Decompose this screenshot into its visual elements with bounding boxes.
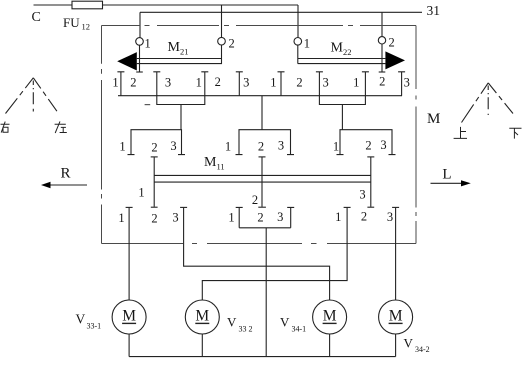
- left direction indicator center line: [32, 81, 34, 112]
- svg-text:21: 21: [180, 47, 189, 57]
- svg-text:2: 2: [215, 75, 221, 89]
- svg-text:2: 2: [389, 35, 395, 49]
- svg-text:M: M: [195, 307, 209, 324]
- contact post 2 row1: [153, 72, 160, 96]
- contact post 1 row1: [117, 72, 124, 96]
- M21 direction arrow (left): [117, 52, 137, 70]
- M21 moving arm: [139, 45, 141, 71]
- svg-text:1: 1: [225, 140, 231, 154]
- wire center drop to middle selector: [261, 96, 263, 130]
- M22 slider bar upper: [298, 58, 386, 60]
- motor V33-1: [112, 300, 146, 334]
- label down-char: [509, 128, 521, 138]
- bracket under M21: [157, 96, 205, 105]
- svg-text:3: 3: [322, 76, 328, 90]
- bottom middle contact 1: [236, 207, 243, 227]
- svg-text:V: V: [280, 315, 290, 330]
- M22 moving arm: [381, 44, 383, 72]
- M11 left arm T-bottom: [151, 206, 158, 208]
- svg-text:V: V: [404, 336, 414, 351]
- wire contact 3 to motor V34-1: [184, 208, 330, 300]
- svg-text:C: C: [32, 10, 41, 25]
- wire V33-2 to bus: [201, 334, 203, 357]
- selector bar middle group: [239, 130, 291, 155]
- svg-text:3: 3: [359, 188, 365, 202]
- controller box dash-dot border top: [102, 25, 417, 27]
- M22 direction arrow (right): [385, 51, 405, 69]
- svg-text:V: V: [227, 315, 237, 330]
- label left-char: [55, 121, 67, 133]
- wire V33-1 to bus: [128, 334, 130, 357]
- controller box dash-dot border left: [101, 26, 103, 244]
- M11 right arm T-bottom: [367, 206, 374, 208]
- selector right T-tips: [337, 154, 396, 156]
- contact post 5 row1: [278, 72, 285, 96]
- svg-text:2: 2: [258, 140, 264, 154]
- svg-text:1: 1: [228, 211, 234, 225]
- bottom middle bracket: [239, 227, 291, 229]
- selector left common T-top: [151, 156, 158, 158]
- svg-text:3: 3: [277, 210, 283, 224]
- svg-text:3: 3: [278, 139, 284, 153]
- svg-text:3: 3: [404, 76, 410, 90]
- svg-text:1: 1: [196, 76, 202, 90]
- svg-text:22: 22: [343, 47, 352, 57]
- svg-text:1: 1: [333, 140, 339, 154]
- svg-text:1: 1: [138, 186, 144, 200]
- M22 slider bar lower: [298, 63, 386, 65]
- M22 arm T-tip: [379, 71, 386, 73]
- svg-text:M: M: [427, 111, 440, 127]
- M22 pin1 stem: [297, 45, 299, 64]
- wire M21 pin1 to 31 bus: [139, 12, 141, 37]
- svg-text:1: 1: [112, 76, 118, 90]
- bottom middle contact 3: [287, 207, 294, 227]
- svg-text:M: M: [122, 307, 136, 324]
- svg-text:31: 31: [427, 3, 441, 18]
- contact post 3 row1: [201, 72, 208, 96]
- selector right common T-top: [367, 156, 374, 158]
- M21 slider bar lower: [137, 63, 222, 65]
- switch M21 pin 1 circle: [136, 38, 144, 46]
- controller box dash-dot border right: [415, 26, 417, 244]
- svg-text:2: 2: [379, 75, 385, 89]
- wire M22 pin1 to C bus: [297, 5, 299, 38]
- controller box dash-dot border bottom: [102, 243, 417, 245]
- minus mark: [145, 104, 151, 106]
- svg-text:3: 3: [380, 138, 386, 152]
- svg-text:L: L: [442, 167, 451, 183]
- M21 pin2 stem: [221, 45, 223, 64]
- contact post 7 row1: [362, 72, 369, 96]
- svg-text:R: R: [60, 166, 70, 182]
- wire M22 pin2 to 31 bus: [381, 12, 383, 36]
- M11 slider bar lower: [154, 181, 371, 183]
- bottom contact 1 T-top left group: [126, 206, 133, 208]
- bottom bus: [129, 356, 396, 358]
- svg-text:3: 3: [170, 139, 176, 153]
- selector middle common T-top: [259, 156, 266, 158]
- wire contact 1 to motor V33-1: [128, 208, 130, 300]
- wire M21 pin2 to C bus: [221, 5, 223, 38]
- svg-text:FU: FU: [63, 15, 80, 30]
- contact post 8 row1: [398, 72, 405, 96]
- svg-text:M: M: [323, 307, 337, 324]
- switch M21 pin 2 circle: [218, 37, 226, 45]
- switch M22 pin 1 circle: [294, 38, 302, 46]
- svg-text:3: 3: [172, 211, 178, 225]
- svg-text:2: 2: [252, 193, 258, 207]
- svg-text:1: 1: [118, 211, 124, 225]
- contact post 4 row1: [236, 72, 243, 96]
- left direction indicator legs: [6, 78, 34, 114]
- svg-text:2: 2: [130, 76, 136, 90]
- svg-text:2: 2: [151, 141, 157, 155]
- motor V34-1: [313, 300, 347, 334]
- label up-char: [454, 127, 467, 138]
- svg-text:33 2: 33 2: [239, 325, 253, 334]
- bracket under M22: [319, 96, 365, 105]
- svg-text:2: 2: [151, 212, 157, 226]
- motor V34-2: [379, 300, 413, 334]
- bracket stem M21: [180, 105, 182, 130]
- M11 left arm terminal 1: [153, 157, 155, 207]
- wire contact 3 to motor V34-2: [395, 208, 397, 300]
- svg-text:1: 1: [119, 140, 125, 154]
- svg-text:M: M: [331, 41, 344, 56]
- label right-char: [1, 122, 10, 133]
- svg-text:3: 3: [387, 210, 393, 224]
- selector bar left group: [131, 130, 182, 155]
- svg-text:3: 3: [243, 76, 249, 90]
- svg-text:1: 1: [353, 76, 359, 90]
- M11 right arm terminal 3: [370, 157, 372, 207]
- M11 middle arm T-bottom: [258, 206, 266, 208]
- bracket stem M22: [341, 105, 343, 130]
- bottom right contact 3 T-top: [392, 206, 399, 208]
- svg-text:33-1: 33-1: [87, 322, 102, 331]
- svg-text:34-2: 34-2: [415, 345, 430, 354]
- svg-text:3: 3: [165, 76, 171, 90]
- svg-text:1: 1: [270, 76, 276, 90]
- wire V34-1 to bus: [329, 334, 331, 357]
- svg-text:2: 2: [365, 139, 371, 153]
- common line row1: [118, 95, 402, 97]
- right direction indicator center line: [487, 86, 489, 116]
- wire C bus: [34, 4, 299, 6]
- svg-text:2: 2: [361, 210, 367, 224]
- M21 slider bar upper: [137, 58, 222, 60]
- svg-text:2: 2: [257, 211, 263, 225]
- fuse FU12: [72, 1, 103, 9]
- M21 arm T-tip: [136, 71, 143, 73]
- wire contact 1 to motor V33-2: [202, 208, 347, 300]
- bottom contact 3 T-top left group: [180, 206, 187, 208]
- motor V33-2: [185, 300, 219, 334]
- switch M22 pin 2 circle: [378, 37, 385, 44]
- right direction indicator legs: [462, 83, 489, 123]
- bottom right contact 1 T-top: [344, 206, 351, 208]
- svg-text:1: 1: [145, 37, 151, 51]
- arrow L: [431, 182, 462, 184]
- M11 slider bar upper: [154, 174, 371, 176]
- svg-text:1: 1: [304, 37, 310, 51]
- svg-text:11: 11: [217, 162, 225, 172]
- contact post 6 row1: [316, 72, 323, 96]
- svg-text:M: M: [204, 155, 217, 170]
- M11 middle arm terminal 2: [261, 157, 263, 207]
- arrow R: [50, 184, 87, 186]
- svg-text:2: 2: [296, 76, 302, 90]
- svg-text:M: M: [168, 40, 181, 55]
- svg-text:34-1: 34-1: [292, 325, 307, 334]
- svg-text:2: 2: [229, 37, 235, 51]
- wire 31 bus: [140, 11, 422, 13]
- selector left T-tips: [128, 154, 186, 156]
- selector bar right group: [340, 130, 392, 155]
- svg-text:V: V: [76, 312, 86, 327]
- svg-text:1: 1: [335, 210, 341, 224]
- wire bracket to bottom bus: [265, 228, 267, 357]
- wire V34-2 to bus: [395, 334, 397, 357]
- selector middle T-tips: [236, 154, 295, 156]
- svg-text:M: M: [389, 307, 403, 324]
- svg-text:12: 12: [82, 22, 91, 32]
